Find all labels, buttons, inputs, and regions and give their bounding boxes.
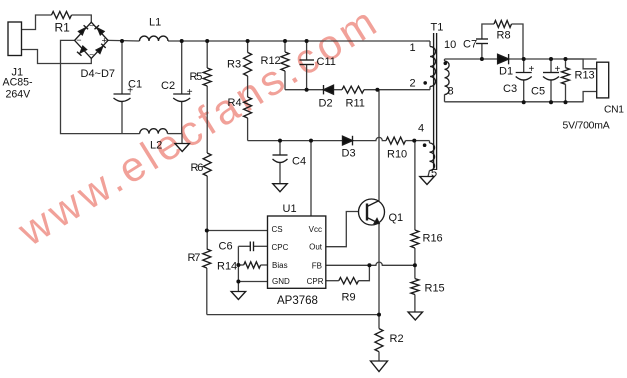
svg-text:R1: R1 xyxy=(55,21,71,35)
svg-text:5: 5 xyxy=(431,168,437,180)
svg-text:Vcc: Vcc xyxy=(309,225,322,234)
svg-text:D4~D7: D4~D7 xyxy=(81,68,116,80)
svg-text:~: ~ xyxy=(89,22,94,31)
svg-text:GND: GND xyxy=(272,277,290,286)
svg-text:10: 10 xyxy=(444,39,456,51)
svg-text:R10: R10 xyxy=(387,149,407,161)
svg-text:+: + xyxy=(555,64,561,75)
svg-text:R5: R5 xyxy=(190,71,203,83)
svg-text:R9: R9 xyxy=(342,292,356,304)
svg-text:U1: U1 xyxy=(283,203,297,215)
svg-text:−: − xyxy=(76,35,81,45)
svg-text:R3: R3 xyxy=(227,59,241,71)
svg-text:+: + xyxy=(187,87,193,98)
svg-text:C6: C6 xyxy=(219,241,233,253)
svg-text:R11: R11 xyxy=(346,98,365,110)
svg-text:R2: R2 xyxy=(390,333,404,345)
svg-text:R8: R8 xyxy=(497,30,511,42)
svg-text:AP3768: AP3768 xyxy=(277,295,318,307)
svg-text:C7: C7 xyxy=(463,39,477,51)
svg-text:1: 1 xyxy=(410,42,416,54)
svg-text:CPC: CPC xyxy=(272,243,289,252)
svg-text:~: ~ xyxy=(89,51,94,60)
svg-text:FB: FB xyxy=(312,261,322,270)
svg-text:CPR: CPR xyxy=(307,277,324,286)
svg-text:R4: R4 xyxy=(228,97,242,109)
svg-text:5V/700mA: 5V/700mA xyxy=(563,121,610,132)
svg-text:R14: R14 xyxy=(217,261,237,273)
svg-text:Bias: Bias xyxy=(272,261,288,270)
svg-text:C4: C4 xyxy=(292,156,306,168)
svg-text:R15: R15 xyxy=(425,283,445,295)
svg-text:D1: D1 xyxy=(499,66,513,78)
svg-text:+: + xyxy=(529,64,535,75)
svg-text:2: 2 xyxy=(410,78,416,90)
svg-text:T1: T1 xyxy=(431,22,444,34)
svg-text:R12: R12 xyxy=(261,55,281,67)
svg-text:R6: R6 xyxy=(191,162,204,174)
svg-text:R7: R7 xyxy=(188,252,201,264)
svg-text:C11: C11 xyxy=(317,56,336,68)
svg-text:C2: C2 xyxy=(161,80,175,92)
svg-text:R13: R13 xyxy=(575,70,595,82)
svg-text:AC85-: AC85- xyxy=(3,77,33,89)
svg-text:Out: Out xyxy=(309,243,323,252)
svg-text:L1: L1 xyxy=(149,17,161,29)
svg-text:+: + xyxy=(102,36,108,47)
svg-text:C1: C1 xyxy=(128,79,142,91)
svg-text:C3: C3 xyxy=(503,83,517,95)
svg-text:R16: R16 xyxy=(423,233,443,245)
svg-text:4: 4 xyxy=(418,123,424,135)
svg-text:CS: CS xyxy=(272,225,283,234)
svg-text:CN1: CN1 xyxy=(604,105,624,116)
svg-text:8: 8 xyxy=(448,86,454,98)
svg-text:Q1: Q1 xyxy=(389,212,404,224)
svg-text:D3: D3 xyxy=(342,148,356,160)
svg-text:D2: D2 xyxy=(319,98,333,110)
svg-text:C5: C5 xyxy=(531,86,545,98)
svg-text:L2: L2 xyxy=(150,140,162,152)
svg-text:264V: 264V xyxy=(6,89,32,101)
